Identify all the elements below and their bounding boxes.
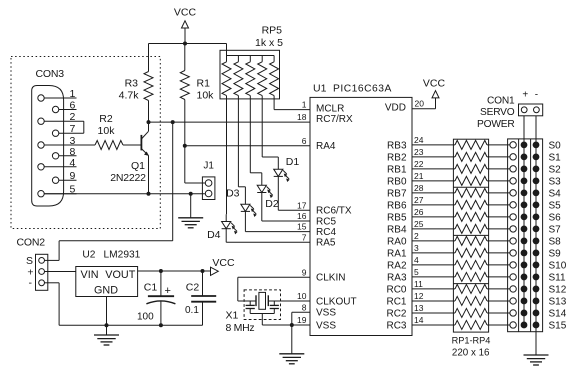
svg-text:S9: S9 — [549, 249, 562, 260]
power VCC (regulator out) symbol — [211, 267, 219, 275]
resistor RP3 element (RA3) — [455, 272, 487, 281]
wire RP5 to D1 — [261, 99, 263, 157]
connector servo S3 + pin — [521, 178, 527, 184]
resistor RP4 element (RC3) — [455, 320, 487, 329]
connector servo S9 - pin — [533, 250, 539, 256]
connector servo S4 signal pin — [510, 190, 516, 196]
connector servo S11 + pin — [521, 274, 527, 280]
resistor pack divider RP2/RP3 — [453, 234, 488, 236]
connector servo S5 + pin — [521, 202, 527, 208]
connector CON3 pin 4 — [38, 164, 44, 170]
svg-text:RA3: RA3 — [387, 273, 407, 284]
connector CON1 pin - — [534, 107, 540, 113]
connector servo S7 - pin — [533, 226, 539, 232]
node ground stem junction — [189, 192, 193, 196]
wire signal S0 — [487, 144, 510, 146]
wire serial S line — [172, 122, 174, 241]
svg-text:0.1: 0.1 — [185, 305, 199, 316]
svg-text:VCC: VCC — [174, 7, 197, 19]
svg-text:CON1: CON1 — [487, 96, 515, 107]
svg-text:J1: J1 — [203, 160, 214, 171]
resistor R1 — [180, 71, 189, 100]
wire pin 25 stub — [412, 228, 455, 230]
svg-text:S4: S4 — [549, 188, 562, 199]
wire pin 24 stub — [412, 144, 455, 146]
connector servo S0 + pin — [521, 142, 527, 148]
wire signal S13 — [487, 300, 510, 302]
svg-text:RB4: RB4 — [387, 225, 407, 236]
connector servo S10 signal pin — [510, 262, 516, 268]
svg-text:8 MHz: 8 MHz — [226, 322, 255, 334]
resistor RP5 element 4 — [261, 56, 263, 62]
wire pin 22 stub — [412, 168, 455, 170]
wire VDD pin 20 — [412, 108, 436, 110]
svg-text:+: + — [522, 89, 528, 100]
svg-text:1: 1 — [70, 88, 76, 100]
capacitor C1 plate bottom (curved) — [146, 301, 175, 304]
crystal X1 body — [259, 292, 266, 309]
connector CON2 box — [36, 254, 48, 290]
ground (VSS) — [279, 353, 304, 355]
connector servo S7 signal pin — [510, 226, 516, 232]
resistor R3 — [144, 72, 153, 101]
connector CON3 pin 7 — [52, 130, 58, 136]
transistor Q1 base bar — [140, 135, 142, 151]
resistor RP3 element (RA1) — [455, 248, 487, 257]
svg-text:GND: GND — [94, 285, 118, 297]
wire ground stem (VSS) — [291, 325, 293, 354]
svg-text:20: 20 — [415, 98, 425, 108]
svg-text:-: - — [29, 277, 33, 289]
connector servo S7 + pin — [521, 226, 527, 232]
resistor R2 — [95, 141, 123, 150]
svg-text:5: 5 — [414, 267, 419, 277]
connector CON3 pin 6 — [52, 106, 58, 112]
connector servo S8 signal pin — [510, 238, 516, 244]
svg-text:12: 12 — [414, 291, 424, 301]
svg-text:RC6/TX: RC6/TX — [316, 206, 352, 217]
svg-text:RC5: RC5 — [316, 216, 336, 227]
svg-text:22: 22 — [414, 159, 424, 169]
wire signal S11 — [487, 276, 510, 278]
wire C1 top lead — [160, 271, 162, 296]
svg-text:18: 18 — [297, 112, 307, 122]
svg-text:8: 8 — [302, 302, 307, 312]
resistor RP2 element (RB7) — [455, 188, 487, 197]
resistor RP5 element 5 — [273, 56, 275, 62]
resistor RP5 element 2 — [237, 56, 239, 62]
svg-text:4.7k: 4.7k — [119, 89, 140, 101]
wire pins 2-7 bracket — [83, 121, 85, 133]
connector CON3 pin 8 — [52, 153, 58, 159]
resistor RP5 element 1 — [226, 56, 228, 62]
svg-text:S0: S0 — [549, 140, 562, 151]
resistor RP5 element 3 — [249, 56, 251, 62]
ground (regulator) — [94, 334, 119, 336]
svg-text:17: 17 — [297, 200, 307, 210]
wire CON2 + to VIN — [45, 271, 76, 273]
svg-text:D4: D4 — [207, 229, 221, 241]
wire signal S14 — [487, 312, 510, 314]
LED D4 — [222, 222, 231, 229]
ground (servo) — [524, 354, 549, 356]
capacitor C2 plate bottom — [191, 301, 216, 303]
node serial tap — [171, 120, 175, 124]
wire pin 14 stub — [412, 324, 455, 326]
wire signal S1 — [487, 156, 510, 158]
op IC U1 PIC16C63A body — [310, 97, 412, 335]
svg-text:RB3: RB3 — [387, 140, 407, 151]
wire ground line from CON3 pin 5 — [44, 193, 205, 195]
wire pin 27 stub — [412, 204, 455, 206]
wire signal S8 — [487, 240, 510, 242]
wire pin 13 stub — [412, 312, 455, 314]
capacitor load left — [249, 301, 251, 305]
node R1 bottom — [183, 144, 187, 148]
wire pin 5 stub — [412, 276, 455, 278]
svg-text:VIN: VIN — [81, 269, 99, 281]
resistor RP4 element (RC2) — [455, 308, 487, 317]
dashed enclosure (oscillator) — [244, 290, 280, 320]
capacitor C2 plate top — [191, 295, 216, 297]
ground (near J1) — [178, 217, 203, 219]
svg-text:16: 16 — [297, 211, 307, 221]
svg-text:VDD: VDD — [385, 102, 406, 113]
resistor RP3 element (RA2) — [455, 260, 487, 269]
connector servo S1 + pin — [521, 154, 527, 160]
resistor RP1 element (RB2) — [455, 152, 487, 161]
wire VCC rail — [149, 43, 227, 45]
svg-text:S3: S3 — [549, 176, 562, 187]
connector servo S0 - pin — [533, 142, 539, 148]
wire pin 23 stub — [412, 156, 455, 158]
svg-text:U1: U1 — [313, 83, 327, 95]
svg-text:Q1: Q1 — [131, 160, 145, 172]
svg-text:S5: S5 — [549, 200, 562, 211]
svg-text:7: 7 — [302, 232, 307, 242]
connector servo S15 signal pin — [510, 322, 516, 328]
svg-text:VCC: VCC — [212, 257, 235, 269]
svg-text:POWER: POWER — [477, 119, 515, 130]
connector servo S3 signal pin — [510, 178, 516, 184]
svg-text:VSS: VSS — [316, 320, 336, 331]
svg-text:RB5: RB5 — [387, 212, 407, 223]
connector servo S15 + pin — [521, 322, 527, 328]
connector CON3 pin 9 — [52, 177, 58, 183]
connector servo S4 + pin — [521, 190, 527, 196]
svg-text:S11: S11 — [549, 273, 566, 284]
wire VOUT line — [138, 270, 211, 272]
connector servo block outline — [508, 139, 543, 332]
svg-text:3: 3 — [414, 243, 419, 253]
svg-text:R1: R1 — [197, 78, 211, 90]
wire RP5 to MCLR — [273, 99, 275, 110]
svg-text:S8: S8 — [549, 237, 562, 248]
power VCC (top) symbol — [182, 21, 189, 28]
connector servo S9 + pin — [521, 250, 527, 256]
svg-text:9: 9 — [70, 170, 76, 182]
resistor RP4 element (RC1) — [455, 296, 487, 305]
node Q1 emitter junction — [147, 192, 151, 196]
connector servo S10 + pin — [521, 262, 527, 268]
wire signal S10 — [487, 264, 510, 266]
wire R1 bottom to RA4 node — [184, 100, 186, 146]
svg-text:RC0: RC0 — [386, 285, 406, 296]
capacitor load right — [273, 301, 275, 305]
svg-text:RP5: RP5 — [262, 25, 283, 37]
connector servo S8 + pin — [521, 238, 527, 244]
connector servo S12 signal pin — [510, 286, 516, 292]
node VSS junction — [290, 323, 294, 327]
resistor RP1 element (RB3) — [455, 140, 487, 149]
svg-text:10k: 10k — [98, 125, 116, 137]
connector servo S2 signal pin — [510, 166, 516, 172]
svg-text:S13: S13 — [549, 297, 567, 308]
wire C2 top lead — [202, 271, 204, 296]
wire signal S6 — [487, 216, 510, 218]
wire RP5 common entry — [226, 44, 228, 56]
wire pin 4 stub — [412, 264, 455, 266]
wire CLKIN — [238, 276, 310, 278]
svg-text:S14: S14 — [549, 309, 567, 320]
svg-text:R3: R3 — [125, 78, 139, 90]
resistor RP3 element (RA0) — [455, 236, 487, 245]
connector J1 pin 2 — [205, 190, 212, 197]
connector J1 pin 1 — [205, 180, 212, 187]
svg-text:10: 10 — [297, 291, 307, 301]
node C2 top — [201, 269, 205, 273]
svg-text:VSS: VSS — [316, 308, 336, 319]
svg-text:RC4: RC4 — [316, 227, 336, 238]
wire D4 cathode — [225, 229, 227, 243]
svg-text:MCLR: MCLR — [316, 104, 344, 115]
wire pin 3 stub — [412, 252, 455, 254]
svg-text:VCC: VCC — [423, 78, 446, 90]
svg-text:RA5: RA5 — [316, 238, 336, 249]
resistor RP2 element (RB6) — [455, 200, 487, 209]
svg-text:6: 6 — [302, 136, 307, 146]
svg-text:2: 2 — [70, 111, 76, 123]
svg-text:2N2222: 2N2222 — [110, 172, 146, 184]
svg-text:1: 1 — [302, 100, 307, 110]
connector servo S2 - pin — [533, 166, 539, 172]
svg-text:S1: S1 — [549, 152, 562, 163]
node U2 GND junction — [105, 323, 109, 327]
LED D3 — [241, 204, 250, 211]
wire signal S5 — [487, 204, 510, 206]
svg-text:RB1: RB1 — [387, 164, 407, 175]
wire RC7/RX line — [149, 121, 311, 123]
connector CON3 pin 5 — [38, 191, 44, 197]
wire signal S12 — [487, 288, 510, 290]
power VCC (VDD) symbol — [432, 91, 439, 98]
svg-text:11: 11 — [414, 279, 423, 289]
wire pin 12 stub — [412, 300, 455, 302]
connector servo S13 - pin — [533, 298, 539, 304]
wire VSS pin 8 — [292, 311, 310, 313]
connector servo S5 - pin — [533, 202, 539, 208]
connector servo S13 signal pin — [510, 298, 516, 304]
connector CON3 pin 2 — [38, 118, 44, 124]
wire RA4 line — [185, 145, 310, 147]
svg-text:S6: S6 — [549, 212, 562, 223]
wire signal S9 — [487, 252, 510, 254]
svg-text:RA2: RA2 — [387, 261, 407, 272]
connector servo S4 - pin — [533, 190, 539, 196]
wire ground stem — [190, 194, 192, 218]
svg-text:C1: C1 — [144, 282, 158, 294]
wire pin 28 stub — [412, 192, 455, 194]
svg-text:27: 27 — [414, 195, 424, 205]
svg-text:VOUT: VOUT — [105, 269, 135, 281]
connector servo S5 signal pin — [510, 202, 516, 208]
transistor Q1 collector — [141, 131, 148, 139]
wire pin 11 stub — [412, 288, 455, 290]
wire pin 26 stub — [412, 216, 455, 218]
crystal X1 plate right — [267, 295, 269, 306]
svg-text:6: 6 — [70, 100, 76, 112]
wire VSS pin 19 — [262, 324, 310, 326]
wire pin3 to R2 — [91, 144, 95, 146]
connector CON2 pin S — [39, 258, 45, 264]
wire C1 bottom lead — [160, 302, 162, 326]
dashed enclosure (serial section) — [11, 57, 160, 229]
node C1 top — [159, 269, 163, 273]
resistor pack divider RP3/RP4 — [453, 283, 488, 285]
svg-text:19: 19 — [297, 315, 307, 325]
connector J1 box — [202, 177, 215, 200]
svg-text:RB7: RB7 — [387, 188, 407, 199]
wire + bus — [523, 116, 525, 325]
svg-text:S2: S2 — [549, 164, 562, 175]
wire R3 bottom to collector node — [148, 101, 150, 123]
resistor pack divider RP1/RP2 — [453, 186, 488, 188]
svg-text:100: 100 — [137, 311, 154, 322]
LED D1 — [274, 169, 283, 176]
connector servo S13 + pin — [521, 298, 527, 304]
svg-text:SERVO: SERVO — [480, 107, 515, 118]
connector servo S6 + pin — [521, 214, 527, 220]
svg-text:23: 23 — [414, 147, 424, 157]
svg-text:CLKIN: CLKIN — [316, 273, 345, 284]
connector servo S11 - pin — [533, 274, 539, 280]
wire VCC stem — [184, 28, 186, 44]
svg-text:CLKOUT: CLKOUT — [316, 296, 357, 307]
connector servo S1 - pin — [533, 154, 539, 160]
connector CON3 pin 1 — [38, 95, 44, 101]
svg-text:RB0: RB0 — [387, 176, 407, 187]
svg-text:28: 28 — [414, 183, 424, 193]
connector servo S11 signal pin — [510, 274, 516, 280]
svg-text:14: 14 — [414, 315, 424, 325]
wire D1 cathode — [277, 176, 279, 210]
connector servo S10 - pin — [533, 262, 539, 268]
svg-text:RP1-RP4: RP1-RP4 — [452, 336, 491, 346]
svg-text:C2: C2 — [186, 282, 200, 294]
connector servo S3 - pin — [533, 178, 539, 184]
connector CON3 pin 3 — [38, 142, 44, 148]
wire C2 bottom lead — [202, 302, 204, 326]
resistor RP4 element (RC0) — [455, 284, 487, 293]
wire CON2 - down — [45, 282, 60, 284]
connector servo S6 signal pin — [510, 214, 516, 220]
resistor pack RP1-RP4 outline — [453, 139, 488, 332]
svg-text:1k x 5: 1k x 5 — [255, 37, 283, 49]
svg-text:U2: U2 — [82, 250, 95, 261]
wire pin 2 stub — [412, 240, 455, 242]
connector CON2 pin - — [39, 280, 45, 286]
node R3/Q1 collector — [147, 120, 151, 124]
wire RP5 common bar — [227, 55, 275, 57]
svg-text:CON3: CON3 — [36, 68, 65, 80]
svg-text:10k: 10k — [197, 89, 215, 101]
wire signal S7 — [487, 228, 510, 230]
node VCC rail junction — [183, 42, 187, 46]
resistor pack RP5 box — [220, 50, 280, 99]
svg-text:RA0: RA0 — [387, 237, 407, 248]
wire RP5 to D4 — [226, 99, 228, 214]
wire U2 GND lead — [106, 297, 108, 326]
svg-text:S10: S10 — [549, 261, 567, 272]
connector servo S2 + pin — [521, 166, 527, 172]
svg-text:CON2: CON2 — [17, 237, 46, 249]
svg-text:LM2931: LM2931 — [104, 250, 141, 261]
svg-text:S15: S15 — [549, 321, 567, 332]
wire signal S2 — [487, 168, 510, 170]
connector CON1 pin + — [521, 107, 527, 113]
svg-text:24: 24 — [414, 135, 424, 145]
connector servo S6 - pin — [533, 214, 539, 220]
svg-text:S12: S12 — [549, 285, 567, 296]
connector CON1 box — [519, 104, 543, 116]
connector servo S8 - pin — [533, 238, 539, 244]
capacitor C1 plate top — [148, 295, 174, 297]
wire CLKOUT — [268, 300, 310, 302]
svg-text:15: 15 — [297, 222, 307, 232]
wire J1 pin1 to RA4 node — [185, 182, 206, 184]
wire D3 cathode — [244, 211, 246, 231]
node C1 bottom junction — [159, 323, 163, 327]
connector servo S12 + pin — [521, 286, 527, 292]
wire R3 top — [148, 44, 150, 72]
wire D2 cathode — [261, 193, 263, 222]
connector servo S14 - pin — [533, 310, 539, 316]
resistor RP1 element (RB1) — [455, 164, 487, 173]
wire signal S15 — [487, 324, 510, 326]
svg-text:21: 21 — [414, 171, 424, 181]
regulator U2 box — [76, 267, 138, 297]
svg-text:25: 25 — [414, 219, 424, 229]
resistor RP2 element (RB5) — [455, 212, 487, 221]
connector servo S12 - pin — [533, 286, 539, 292]
wire bottom rail — [59, 324, 202, 326]
connector servo S1 signal pin — [510, 154, 516, 160]
resistor RP1 element (RB0) — [455, 176, 487, 185]
wire R1 top — [184, 44, 186, 71]
svg-text:RA4: RA4 — [316, 141, 336, 152]
svg-text:RC3: RC3 — [386, 321, 406, 332]
svg-text:RB6: RB6 — [387, 200, 407, 211]
wire ground stem (regulator) — [106, 325, 108, 335]
svg-text:7: 7 — [70, 123, 76, 135]
LED D2 — [257, 185, 266, 192]
connector servo S14 + pin — [521, 310, 527, 316]
wire signal S3 — [487, 180, 510, 182]
wire RP5 to D2 — [249, 99, 251, 173]
wire R2 to Q1 base — [123, 144, 141, 146]
connector CON3 DB9 shell — [32, 86, 64, 207]
wire - bus — [535, 116, 537, 355]
